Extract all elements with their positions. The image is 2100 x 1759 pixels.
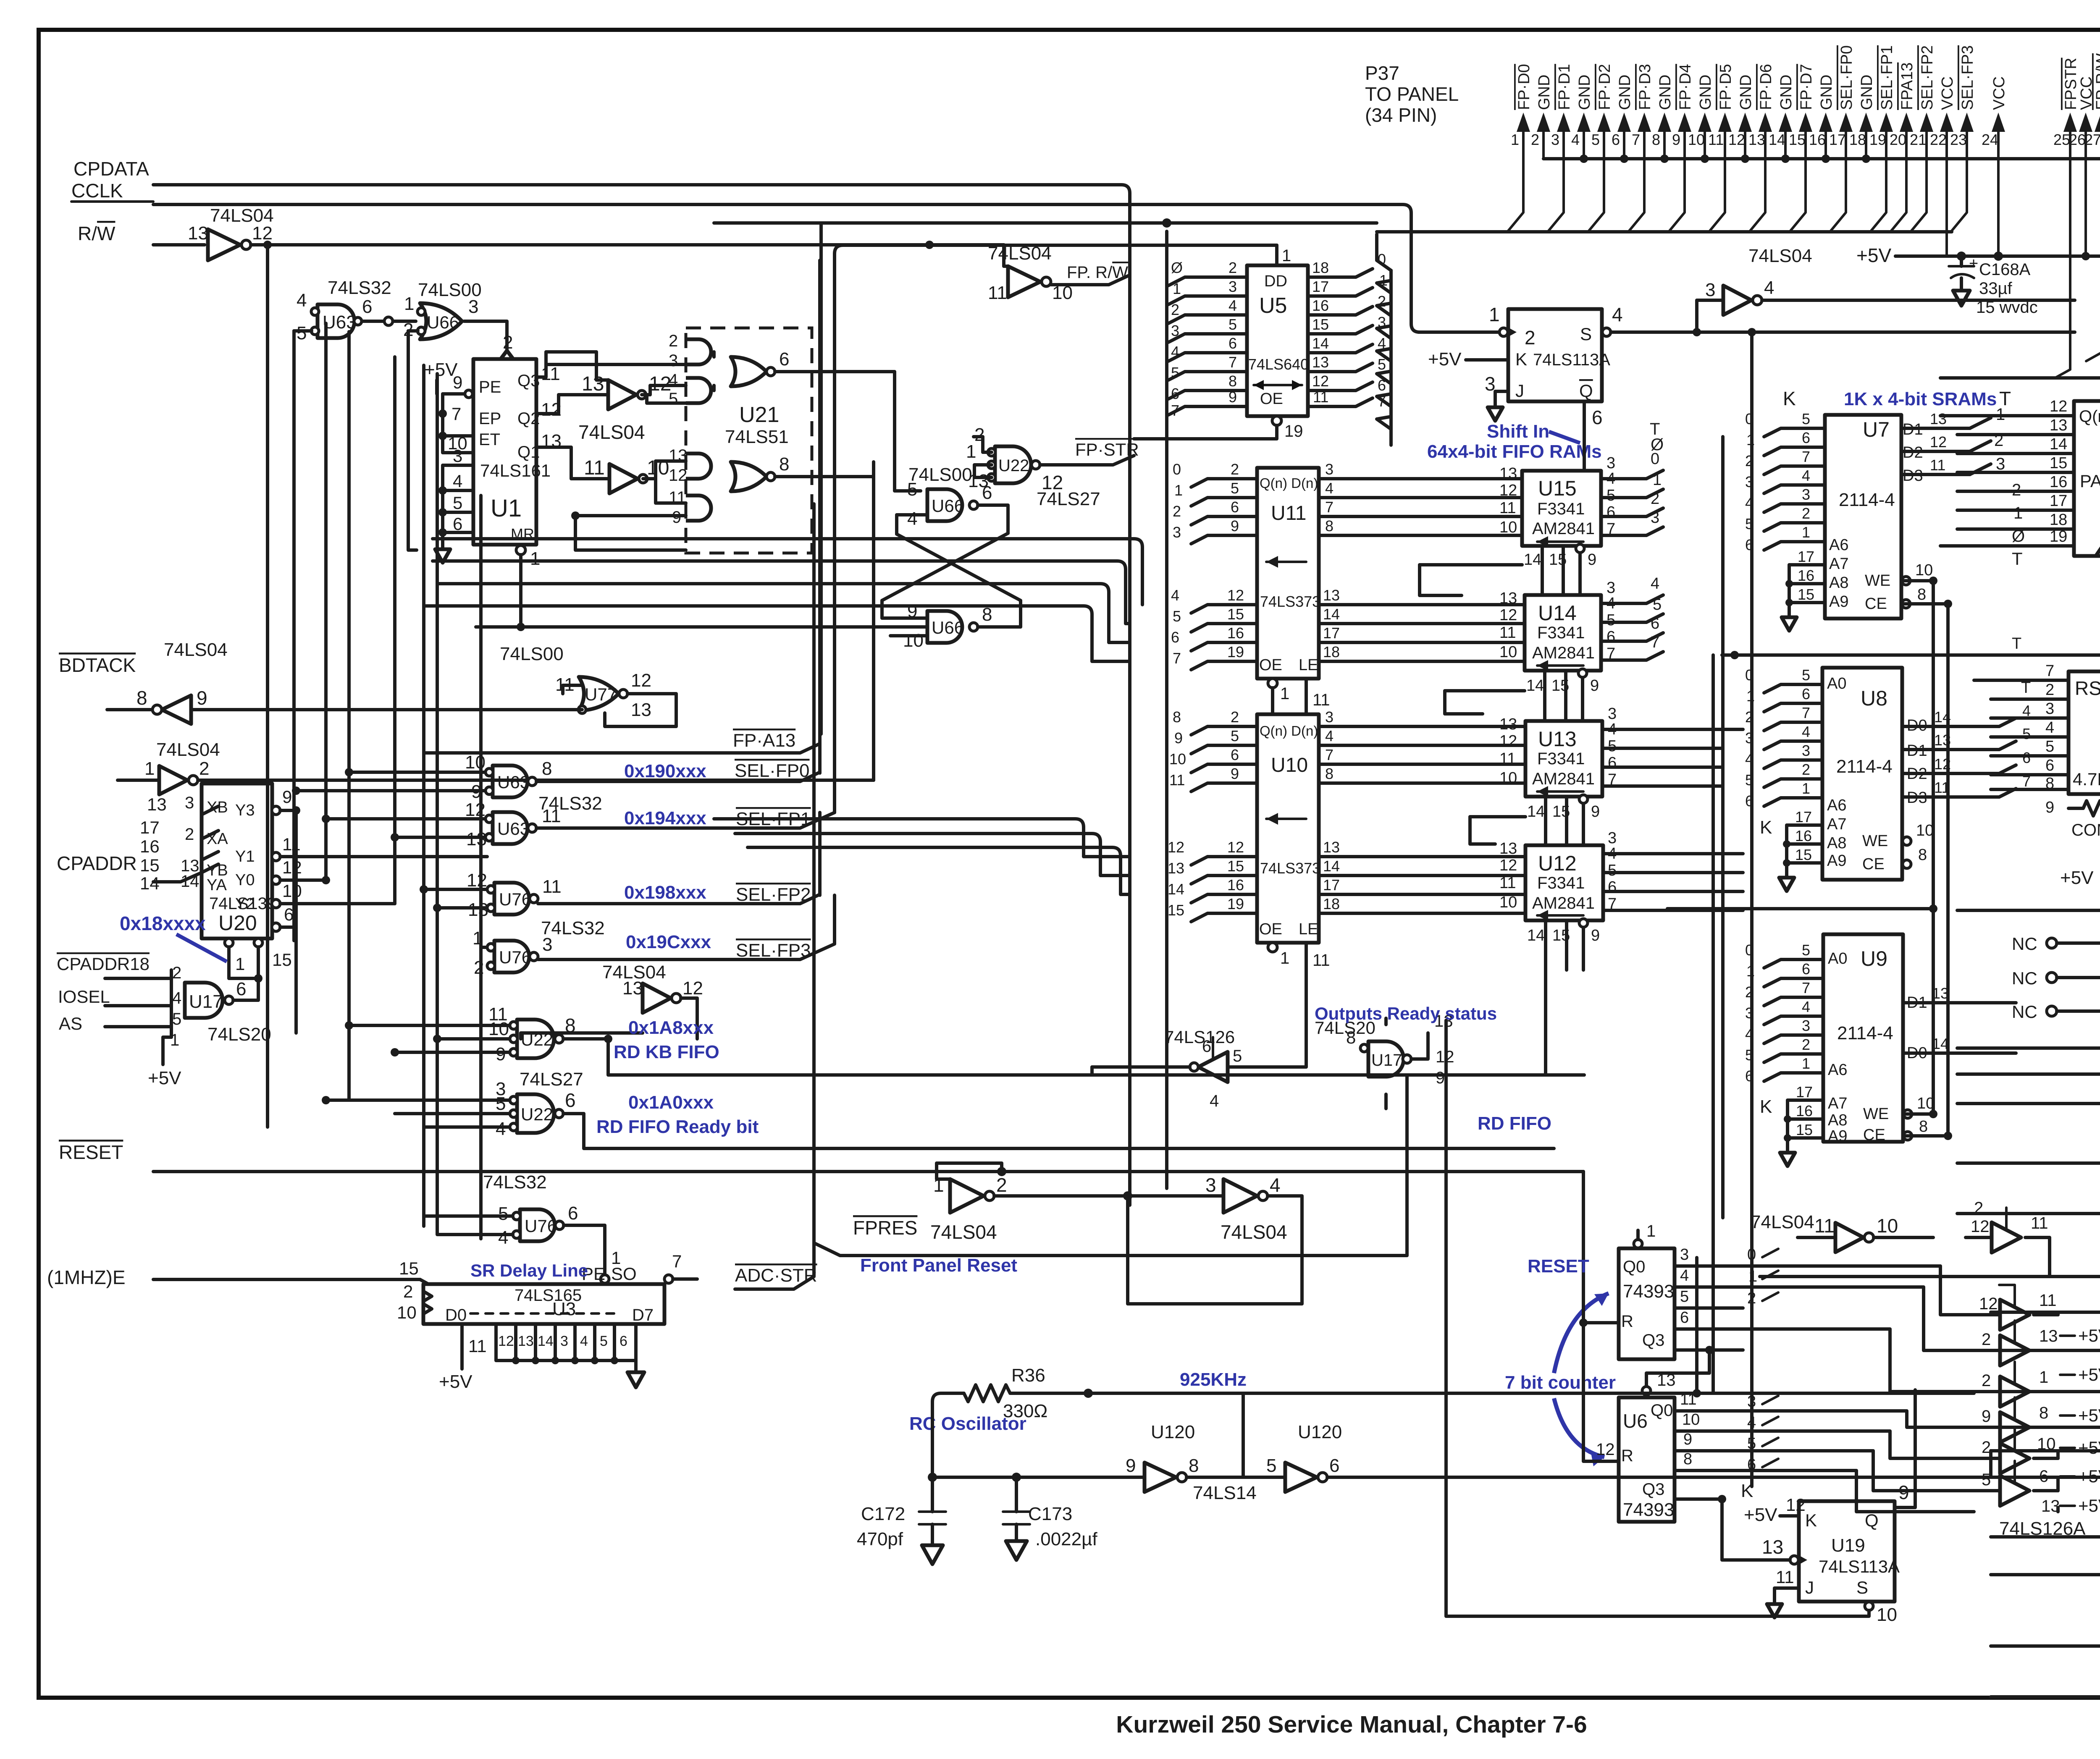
svg-text:Q: Q	[1865, 1510, 1879, 1530]
svg-text:COM: COM	[2071, 821, 2100, 839]
annotation RC Oscillator	[909, 1413, 1026, 1434]
wire U7 ground + T line	[1901, 577, 1952, 608]
node RESET label	[59, 1141, 123, 1163]
AND gates U21 bottom pair	[669, 446, 711, 527]
wire U66 pin2 from below	[408, 331, 418, 550]
svg-text:17: 17	[1323, 876, 1340, 894]
svg-text:74LS04: 74LS04	[578, 421, 645, 443]
svg-text:A9: A9	[1829, 593, 1848, 611]
svg-text:74LS32: 74LS32	[483, 1172, 547, 1193]
svg-text:5: 5	[1802, 410, 1810, 427]
wire U19 S out	[1611, 328, 2075, 336]
svg-text:15: 15	[140, 855, 160, 875]
vertical grid wires decode region	[296, 323, 481, 1239]
U7 left addr taps	[1745, 410, 1825, 553]
svg-text:14: 14	[140, 873, 160, 893]
net BK5	[1991, 1427, 2100, 1463]
svg-text:U66: U66	[932, 618, 964, 637]
svg-text:6: 6	[1802, 960, 1810, 978]
svg-text:Kurzweil 250 Service Manual, C: Kurzweil 250 Service Manual, Chapter 7-6	[1116, 1711, 1587, 1738]
annotation 1K x 4-bit SRAMs	[1783, 388, 2011, 409]
U9 A7/A8/A9 stub boxes	[1780, 1083, 1823, 1166]
node CPADDR18 label	[57, 954, 150, 974]
svg-text:Ø: Ø	[1651, 435, 1664, 454]
label 74LS20	[207, 1024, 271, 1045]
svg-text:1: 1	[1280, 684, 1289, 703]
svg-text:26: 26	[2069, 131, 2086, 148]
inverter U120a	[928, 1393, 1257, 1503]
svg-text:4: 4	[1764, 278, 1774, 298]
wire U4 pin1/11 down	[1957, 556, 2100, 752]
svg-text:FP·D7: FP·D7	[1798, 64, 1815, 110]
svg-text:6: 6	[1606, 503, 1615, 521]
net FP-A13	[424, 260, 820, 753]
svg-text:7: 7	[1228, 354, 1237, 371]
svg-text:18: 18	[2050, 511, 2067, 529]
net FP-STR	[1040, 440, 1139, 465]
annotation 0x1A8xxx / RD KB FIFO	[614, 1017, 719, 1062]
wire RESET into U6 R pins	[1579, 1172, 1619, 1461]
svg-text:RS6: RS6	[2075, 677, 2100, 699]
svg-text:12: 12	[1728, 131, 1745, 148]
annotation 0x194xxx	[624, 808, 706, 828]
svg-text:CE: CE	[1862, 855, 1885, 873]
wire bus horizontals into U10 lower taps	[296, 819, 1130, 1109]
NAND U63a 0x190xxx	[465, 752, 552, 802]
IC U10 74LS373	[1257, 714, 1330, 970]
svg-text:CPDATA: CPDATA	[73, 158, 149, 180]
svg-text:1: 1	[1802, 780, 1810, 797]
svg-text:19: 19	[2050, 528, 2067, 545]
svg-text:Front Panel Reset: Front Panel Reset	[860, 1255, 1017, 1276]
svg-text:11: 11	[988, 283, 1007, 303]
wire U15-U14 vertical links	[1542, 546, 1567, 845]
wire U6b Q3 to U19b clock	[1722, 1499, 1790, 1560]
svg-text:5: 5	[1608, 862, 1617, 879]
svg-text:R36: R36	[1011, 1365, 1045, 1386]
svg-text:6: 6	[1231, 746, 1239, 763]
svg-text:9: 9	[1591, 803, 1600, 821]
svg-text:A9: A9	[1827, 852, 1846, 870]
svg-text:4: 4	[907, 509, 917, 529]
wire R/W inverted to FP.R/W	[251, 241, 1004, 249]
svg-text:XA: XA	[207, 830, 228, 848]
svg-text:2: 2	[185, 825, 194, 844]
svg-text:8: 8	[542, 758, 552, 779]
svg-text:0x18xxxx: 0x18xxxx	[120, 912, 206, 934]
wire U19b S bottom long line	[1446, 1020, 1869, 1616]
svg-text:AM2841: AM2841	[1532, 894, 1595, 912]
svg-text:7: 7	[1173, 650, 1181, 667]
wire bus rail vertical pair CPDATA down	[0, 0, 0, 0]
svg-text:CE: CE	[1865, 595, 1887, 613]
svg-text:5: 5	[1173, 608, 1181, 625]
svg-text:1: 1	[1173, 280, 1181, 297]
svg-text:OE: OE	[1259, 656, 1282, 674]
svg-text:RD KB FIFO: RD KB FIFO	[614, 1042, 719, 1062]
svg-text:3: 3	[1325, 708, 1333, 726]
svg-text:11: 11	[1313, 388, 1328, 406]
svg-text:14: 14	[1312, 335, 1329, 352]
svg-text:U5: U5	[1259, 294, 1287, 318]
svg-text:A7: A7	[1828, 1095, 1847, 1112]
svg-text:16: 16	[1796, 1102, 1813, 1119]
svg-text:14: 14	[1526, 677, 1544, 695]
wire U22b out	[563, 1114, 1554, 1148]
svg-text:16: 16	[1798, 567, 1814, 584]
svg-text:4: 4	[297, 290, 307, 311]
label 74LS00 (U66 pair)	[908, 464, 972, 485]
svg-text:U17: U17	[189, 991, 223, 1012]
svg-text:13: 13	[518, 1333, 534, 1349]
svg-text:A0: A0	[1827, 675, 1846, 692]
svg-text:6: 6	[1608, 878, 1617, 896]
wire mid bus 546	[714, 218, 1377, 228]
svg-text:12: 12	[1499, 857, 1517, 874]
svg-text:74LS00: 74LS00	[500, 644, 564, 664]
svg-text:74LS32: 74LS32	[328, 278, 391, 298]
svg-text:5: 5	[498, 1203, 508, 1224]
svg-text:13: 13	[1930, 410, 1947, 427]
svg-text:13: 13	[147, 794, 167, 814]
svg-text:RD FIFO Ready bit: RD FIFO Ready bit	[596, 1117, 759, 1137]
svg-text:6: 6	[779, 349, 789, 370]
svg-text:Q(n): Q(n)	[2079, 407, 2100, 426]
svg-text:5: 5	[453, 493, 462, 513]
annotation Buffer Inverting	[1254, 380, 1302, 404]
svg-text:4: 4	[580, 1333, 588, 1349]
svg-text:1: 1	[1802, 524, 1810, 541]
svg-text:+5V: +5V	[2078, 1466, 2100, 1486]
svg-text:GND: GND	[1656, 75, 1674, 110]
svg-text:15: 15	[399, 1258, 419, 1278]
svg-text:4: 4	[453, 471, 462, 491]
svg-text:Q(n) D(n): Q(n) D(n)	[1260, 723, 1318, 739]
U18 bottom pins 1/2/3	[2037, 1141, 2100, 1214]
IC U5 74LS640	[1134, 245, 1309, 440]
net SEL-FP1	[536, 269, 835, 829]
annotation Outputs Ready status	[1315, 1004, 1497, 1023]
svg-text:19: 19	[1869, 131, 1886, 148]
svg-text:2: 2	[172, 964, 181, 982]
svg-text:8: 8	[1652, 131, 1660, 148]
svg-text:13: 13	[466, 829, 487, 849]
svg-text:6: 6	[1202, 1037, 1211, 1056]
connector P37 pin lines 1-34	[1507, 31, 2100, 378]
wire U13 left hook	[1470, 817, 1525, 844]
svg-text:2: 2	[1802, 761, 1810, 778]
svg-text:4: 4	[1228, 297, 1237, 314]
svg-text:4: 4	[1802, 998, 1810, 1015]
IC U19b 74LS113A	[1744, 1390, 1915, 1625]
IC U20 74LS139	[181, 784, 302, 938]
svg-text:13: 13	[1499, 590, 1517, 607]
svg-text:2: 2	[1525, 327, 1536, 349]
ground U1	[435, 549, 450, 563]
node AS label	[59, 1014, 82, 1033]
svg-text:U21: U21	[739, 403, 779, 427]
svg-text:6: 6	[1802, 685, 1810, 703]
svg-text:6: 6	[284, 904, 294, 924]
svg-text:14: 14	[1323, 857, 1340, 875]
svg-text:3: 3	[1608, 829, 1617, 847]
ground U19 J	[1488, 391, 1508, 421]
svg-text:12: 12	[669, 466, 688, 485]
svg-text:74LS04: 74LS04	[1748, 246, 1812, 266]
annotation SR Delay Line	[470, 1261, 588, 1280]
svg-text:4: 4	[496, 1119, 506, 1139]
svg-text:PE: PE	[479, 378, 501, 396]
svg-text:2: 2	[669, 332, 678, 350]
NAND U17 74LS20	[105, 964, 246, 1049]
svg-text:WE: WE	[1863, 1105, 1889, 1123]
svg-text:5: 5	[1233, 1047, 1242, 1065]
svg-text:3: 3	[1802, 1017, 1810, 1034]
svg-text:2: 2	[1228, 259, 1237, 276]
U8 A7/A8/A9 stub boxes	[1779, 808, 1822, 891]
svg-text:9: 9	[471, 781, 481, 802]
svg-text:15: 15	[1227, 857, 1244, 875]
svg-text:U22: U22	[998, 456, 1029, 475]
svg-text:11: 11	[1708, 131, 1724, 148]
svg-text:74393: 74393	[1623, 1281, 1674, 1302]
wire vertical rails x4603/x4638	[1933, 581, 1948, 1136]
svg-text:0x198xxx: 0x198xxx	[624, 882, 706, 903]
svg-text:2: 2	[2045, 681, 2054, 699]
svg-text:6: 6	[1608, 754, 1617, 772]
svg-text:5: 5	[1653, 596, 1662, 613]
dashed box U21	[686, 328, 812, 553]
svg-text:Q0: Q0	[1623, 1258, 1645, 1276]
svg-text:11: 11	[1499, 624, 1516, 642]
svg-text:4: 4	[1171, 343, 1179, 360]
svg-text:74LS00: 74LS00	[908, 464, 972, 485]
U6a right pins	[1675, 1246, 1743, 1354]
svg-text:RESET: RESET	[1528, 1256, 1589, 1277]
IC U6a 74393	[1619, 1222, 1675, 1359]
wire U63 to U66	[362, 294, 416, 325]
svg-text:15: 15	[1227, 606, 1244, 623]
svg-text:NC: NC	[2012, 968, 2037, 988]
NOR U77	[500, 644, 651, 720]
svg-text:1: 1	[1653, 471, 1662, 489]
svg-text:13: 13	[968, 471, 989, 491]
svg-text:3: 3	[1205, 1174, 1216, 1196]
wire P37 collector bus	[1377, 230, 1952, 233]
svg-text:1: 1	[2013, 504, 2023, 522]
svg-text:U120: U120	[1151, 1422, 1195, 1442]
svg-text:5: 5	[1171, 364, 1179, 381]
label 74LS04 right of U76b	[521, 962, 703, 1039]
svg-text:3: 3	[2045, 700, 2054, 718]
wire U6a outputs to buffers	[1743, 1247, 1974, 1392]
inverter 74LS04 BDTACK (points left)	[136, 640, 228, 724]
IC U15 F3341	[1499, 454, 1615, 547]
svg-text:2: 2	[1231, 708, 1239, 726]
svg-text:Y0: Y0	[235, 871, 255, 889]
NAND U76c	[483, 1172, 578, 1248]
annotation 64x4-bit FIFO RAMs	[1427, 441, 1602, 462]
svg-text:Y3: Y3	[235, 802, 255, 819]
svg-text:SEL·FP2: SEL·FP2	[736, 884, 811, 905]
wire Q3 to U21	[536, 352, 686, 380]
svg-text:6: 6	[1592, 406, 1603, 428]
svg-text:FP·A13: FP·A13	[733, 730, 795, 751]
svg-text:11: 11	[1312, 691, 1330, 709]
svg-text:11: 11	[584, 457, 605, 479]
svg-text:2: 2	[1982, 1330, 1991, 1349]
inverter 74LS04 (3->4) top	[1697, 246, 2075, 332]
svg-text:5: 5	[1228, 316, 1237, 333]
svg-text:2: 2	[403, 1282, 413, 1301]
svg-text:74LS640: 74LS640	[1248, 356, 1309, 373]
svg-text:14: 14	[1524, 551, 1541, 569]
svg-text:74LS373: 74LS373	[1260, 593, 1320, 610]
svg-text:7: 7	[2045, 662, 2054, 680]
net SEL-FP2	[538, 813, 820, 905]
svg-text:12: 12	[1499, 606, 1517, 624]
wire R/W input	[153, 243, 205, 246]
svg-text:9: 9	[1231, 517, 1239, 535]
svg-text:K: K	[1515, 349, 1527, 369]
wire staircase band P37-to-U5	[1377, 234, 1391, 445]
NC pins	[2012, 934, 2083, 1022]
svg-text:7: 7	[672, 1251, 682, 1271]
svg-text:10: 10	[1499, 769, 1517, 787]
svg-text:U77: U77	[585, 684, 617, 704]
svg-text:5: 5	[1591, 131, 1600, 148]
svg-text:EP: EP	[479, 409, 501, 428]
svg-text:6: 6	[1680, 1309, 1689, 1326]
svg-text:2: 2	[503, 332, 513, 353]
svg-text:7: 7	[1632, 131, 1640, 148]
svg-text:11: 11	[1814, 1215, 1835, 1237]
svg-text:15: 15	[1552, 927, 1570, 944]
svg-text:4: 4	[1680, 1267, 1689, 1285]
inverter U120b	[1243, 1422, 1991, 1492]
svg-text:12: 12	[1168, 839, 1184, 856]
U11 left pins group1	[1173, 461, 1257, 544]
svg-text:74LS139: 74LS139	[209, 894, 276, 913]
svg-text:13: 13	[1499, 716, 1517, 733]
svg-text:0: 0	[1173, 461, 1181, 478]
svg-text:SR Delay Line: SR Delay Line	[470, 1261, 588, 1280]
svg-text:74393: 74393	[1623, 1499, 1674, 1520]
node (1MHZ)E label	[47, 1266, 126, 1288]
svg-text:A8: A8	[1828, 1111, 1847, 1129]
IC U9 2114-4	[1823, 934, 1935, 1145]
svg-text:20: 20	[1890, 131, 1906, 148]
svg-text:3: 3	[1606, 579, 1615, 597]
wire decode grid horizontals	[258, 768, 510, 1127]
svg-text:YA: YA	[207, 876, 227, 894]
svg-text:13: 13	[1168, 860, 1184, 877]
svg-text:10: 10	[2037, 1435, 2056, 1453]
svg-text:16: 16	[1809, 131, 1826, 148]
svg-text:74LS126: 74LS126	[1164, 1027, 1235, 1047]
svg-text:16: 16	[140, 836, 160, 856]
svg-text:4: 4	[1325, 480, 1333, 497]
svg-text:12: 12	[1596, 1440, 1615, 1459]
svg-text:9: 9	[1126, 1455, 1136, 1476]
svg-text:13: 13	[622, 978, 643, 999]
svg-text:CE: CE	[1863, 1126, 1885, 1144]
svg-text:10: 10	[1499, 643, 1517, 661]
svg-text:Q3: Q3	[1642, 1480, 1664, 1499]
svg-text:D0: D0	[445, 1306, 467, 1324]
net BK2	[1991, 1326, 2100, 1362]
svg-text:12: 12	[1971, 1217, 1990, 1236]
svg-text:6: 6	[236, 979, 246, 999]
svg-text:11: 11	[2039, 1291, 2057, 1310]
svg-text:4: 4	[1571, 131, 1580, 148]
wire U11/U10 OE link	[1273, 679, 1306, 714]
U12 right wires	[1603, 854, 1743, 910]
svg-text:GND: GND	[1616, 75, 1634, 110]
svg-text:16: 16	[1795, 827, 1812, 844]
U13 bottom pins	[1527, 795, 1600, 845]
annotation 0x190xxx	[624, 761, 706, 781]
svg-text:4.7KΩ: 4.7KΩ	[2073, 769, 2100, 789]
U20 bottom pins 1/15 + 0x18xxxx	[225, 938, 292, 991]
inverter U79 (3->4)	[1128, 1174, 1302, 1304]
svg-text:1: 1	[1996, 405, 2005, 424]
svg-text:470pf: 470pf	[857, 1529, 903, 1549]
svg-text:U13: U13	[1538, 727, 1577, 751]
wire U21 out8 right to U66b	[775, 477, 874, 491]
NAND U66c (9,10->8)	[903, 601, 992, 651]
svg-text:Q3: Q3	[517, 372, 540, 390]
svg-text:3: 3	[1651, 509, 1659, 527]
svg-text:U22: U22	[521, 1104, 553, 1124]
svg-text:12: 12	[2050, 398, 2067, 415]
svg-text:CCLK: CCLK	[71, 180, 123, 202]
svg-text:15: 15	[1798, 586, 1814, 603]
svg-text:Outputs Ready status: Outputs Ready status	[1315, 1004, 1497, 1023]
label 74LS04 mid	[578, 421, 645, 443]
svg-text:S: S	[1580, 324, 1592, 344]
svg-text:U76: U76	[499, 947, 531, 967]
NAND U22a 3-input 0x1A8xxx	[488, 1004, 576, 1064]
svg-text:1: 1	[404, 294, 414, 314]
svg-text:4: 4	[1802, 467, 1810, 484]
AND gates U21 top pair	[669, 332, 711, 408]
svg-text:+5V: +5V	[2060, 868, 2094, 888]
svg-text:74LS113A: 74LS113A	[1819, 1557, 1900, 1576]
svg-text:AM2841: AM2841	[1532, 770, 1595, 788]
svg-text:14: 14	[538, 1333, 554, 1349]
svg-text:8: 8	[136, 687, 147, 709]
net FPRES	[814, 1075, 1407, 1256]
ground U3	[627, 1372, 644, 1387]
svg-text:15: 15	[1795, 846, 1812, 863]
svg-text:74LS20: 74LS20	[207, 1024, 271, 1045]
svg-text:12: 12	[1042, 472, 1063, 493]
svg-text:12: 12	[1979, 1295, 1998, 1313]
wire long T rail	[1722, 635, 2037, 659]
svg-text:9: 9	[1588, 551, 1596, 569]
svg-text:18: 18	[1323, 643, 1340, 661]
svg-text:SEL·FP3: SEL·FP3	[1959, 45, 1977, 110]
RS6 left pins	[2037, 662, 2068, 816]
IC U12 F3341	[1499, 829, 1617, 921]
svg-text:R: R	[1621, 1312, 1633, 1331]
svg-text:8: 8	[2045, 775, 2054, 792]
svg-text:GND: GND	[1576, 75, 1593, 110]
svg-text:F3341: F3341	[1537, 624, 1585, 642]
svg-text:U15: U15	[1538, 477, 1577, 500]
svg-text:14: 14	[1168, 881, 1184, 898]
